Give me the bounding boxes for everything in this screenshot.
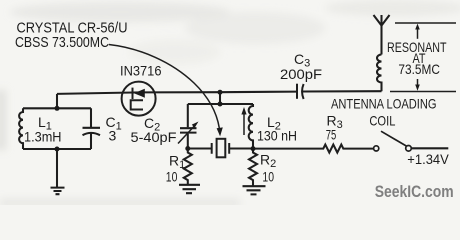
svg-text:75: 75 (326, 127, 337, 143)
svg-text:SeekIC.com: SeekIC.com (375, 182, 454, 201)
svg-text:1.3mH: 1.3mH (24, 129, 62, 145)
svg-text:ANTENNA LOADING: ANTENNA LOADING (331, 96, 437, 112)
svg-text:10: 10 (166, 169, 178, 185)
svg-text:+1.34V: +1.34V (407, 151, 449, 167)
svg-text:CBSS 73.500MC: CBSS 73.500MC (15, 35, 109, 51)
svg-text:IN3716: IN3716 (120, 63, 162, 79)
svg-text:10: 10 (262, 169, 274, 185)
svg-text:3: 3 (109, 127, 117, 143)
svg-text:200pF: 200pF (280, 66, 322, 82)
svg-text:5-40pF: 5-40pF (131, 129, 177, 145)
svg-text:COIL: COIL (369, 113, 395, 129)
svg-text:73.5MC: 73.5MC (398, 61, 440, 77)
svg-text:130 nH: 130 nH (257, 128, 297, 144)
